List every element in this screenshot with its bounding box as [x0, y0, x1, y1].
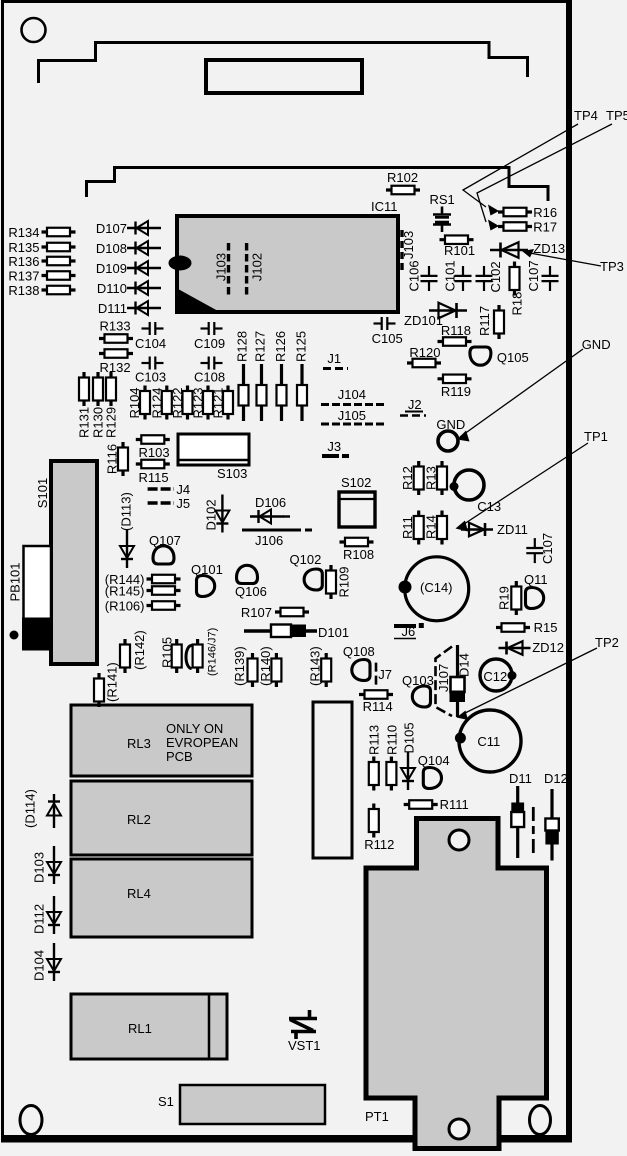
svg-text:R125: R125 [294, 331, 309, 362]
svg-text:R135: R135 [8, 240, 39, 255]
svg-text:R136: R136 [8, 254, 39, 269]
svg-text:R12: R12 [400, 466, 415, 490]
svg-text:C12: C12 [483, 669, 507, 684]
svg-text:R123: R123 [191, 387, 206, 418]
svg-text:RS1: RS1 [430, 192, 455, 207]
svg-text:R14: R14 [424, 515, 439, 539]
svg-text:R102: R102 [387, 170, 418, 185]
svg-text:C102: C102 [488, 261, 503, 292]
svg-text:R105: R105 [160, 637, 175, 668]
svg-text:J5: J5 [176, 496, 190, 511]
svg-text:R19: R19 [497, 586, 512, 610]
svg-text:D111: D111 [98, 301, 127, 316]
svg-text:D109: D109 [96, 261, 127, 276]
svg-text:J107: J107 [436, 664, 451, 692]
svg-text:(R140): (R140) [258, 646, 273, 686]
svg-text:RL3: RL3 [127, 736, 151, 751]
svg-text:D104: D104 [32, 950, 47, 981]
svg-text:D110: D110 [97, 281, 127, 296]
svg-text:J102: J102 [250, 253, 265, 281]
svg-text:J1: J1 [327, 351, 341, 366]
svg-text:(R145): (R145) [105, 584, 145, 599]
svg-text:PT1: PT1 [365, 1109, 389, 1124]
svg-text:R121: R121 [211, 387, 226, 418]
svg-text:Q104: Q104 [418, 753, 450, 768]
svg-text:R132: R132 [100, 360, 131, 375]
svg-text:R104: R104 [127, 387, 142, 418]
svg-text:R108: R108 [343, 547, 374, 562]
svg-text:R122: R122 [170, 387, 185, 418]
svg-text:R110: R110 [385, 725, 400, 755]
svg-text:R120: R120 [409, 345, 440, 360]
svg-text:C107: C107 [540, 533, 555, 564]
svg-text:D107: D107 [96, 221, 127, 236]
svg-text:R119: R119 [441, 384, 471, 399]
svg-text:R111: R111 [440, 797, 469, 812]
svg-text:C109: C109 [194, 336, 225, 351]
svg-text:J2: J2 [408, 397, 422, 412]
svg-text:D103: D103 [32, 852, 47, 883]
svg-text:ZD11: ZD11 [497, 522, 528, 537]
svg-text:R11: R11 [400, 516, 415, 539]
svg-text:S1: S1 [158, 1094, 174, 1109]
svg-text:R138: R138 [8, 283, 39, 298]
svg-text:VST1: VST1 [288, 1038, 321, 1053]
svg-text:(R141): (R141) [105, 662, 120, 702]
svg-text:J105: J105 [338, 408, 366, 423]
svg-text:(R143): (R143) [308, 646, 323, 686]
svg-text:EVROPEAN: EVROPEAN [166, 735, 238, 750]
svg-text:R115: R115 [139, 470, 169, 485]
svg-text:R124: R124 [150, 387, 165, 418]
svg-text:J4: J4 [176, 482, 190, 497]
svg-text:R127: R127 [253, 331, 268, 362]
svg-text:D106: D106 [255, 495, 286, 510]
svg-text:R117: R117 [477, 306, 492, 336]
svg-text:S102: S102 [341, 475, 371, 490]
svg-text:D105: D105 [402, 722, 417, 753]
svg-text:D102: D102 [204, 499, 219, 530]
svg-text:R128: R128 [235, 331, 250, 362]
svg-text:RL2: RL2 [127, 812, 151, 827]
svg-text:ZD101: ZD101 [404, 313, 443, 328]
svg-text:S101: S101 [35, 478, 50, 508]
svg-text:D108: D108 [96, 241, 127, 256]
svg-text:RL4: RL4 [127, 886, 151, 901]
svg-text:D101: D101 [318, 625, 349, 640]
svg-text:(R139): (R139) [232, 646, 247, 686]
svg-text:(C14): (C14) [420, 580, 453, 595]
svg-text:Q102: Q102 [290, 552, 322, 567]
svg-text:J6: J6 [402, 624, 416, 639]
svg-text:R113: R113 [367, 725, 382, 755]
svg-text:(D114): (D114) [23, 789, 38, 828]
svg-text:R109: R109 [336, 566, 351, 597]
svg-text:R112: R112 [364, 837, 394, 852]
svg-text:(R142): (R142) [132, 630, 147, 670]
svg-text:ZD12: ZD12 [532, 640, 564, 655]
svg-text:TP3: TP3 [600, 259, 624, 274]
svg-text:D12: D12 [544, 771, 568, 786]
svg-text:R15: R15 [534, 620, 558, 635]
svg-text:Q107: Q107 [149, 533, 181, 548]
svg-text:(R146/J7): (R146/J7) [207, 628, 219, 676]
svg-text:R107: R107 [241, 605, 272, 620]
svg-text:TP2: TP2 [595, 635, 619, 650]
svg-text:S103: S103 [217, 466, 247, 481]
svg-text:J104: J104 [338, 387, 366, 402]
svg-text:C104: C104 [135, 336, 166, 351]
svg-text:RL1: RL1 [128, 1021, 152, 1036]
svg-text:J106: J106 [255, 533, 283, 548]
svg-text:TP5: TP5 [606, 108, 627, 123]
svg-text:TP4: TP4 [574, 108, 598, 123]
svg-text:Q105: Q105 [497, 350, 529, 365]
svg-text:R16: R16 [533, 205, 557, 220]
svg-text:TP1: TP1 [584, 429, 608, 444]
svg-text:R118: R118 [441, 323, 471, 338]
svg-text:Q11: Q11 [524, 572, 548, 587]
svg-text:R114: R114 [363, 699, 393, 714]
svg-text:R101: R101 [444, 243, 475, 258]
svg-text:Q108: Q108 [343, 644, 375, 659]
svg-text:C106: C106 [406, 260, 421, 291]
svg-text:R137: R137 [8, 269, 39, 284]
svg-text:R18: R18 [510, 292, 525, 316]
svg-text:D14: D14 [457, 653, 472, 677]
svg-text:ZD13: ZD13 [533, 241, 565, 256]
svg-text:D112: D112 [32, 904, 47, 934]
svg-text:R131: R131 [77, 407, 92, 438]
svg-text:Q103: Q103 [402, 673, 434, 688]
svg-text:ONLY ON: ONLY ON [166, 721, 223, 736]
svg-text:R103: R103 [139, 445, 170, 460]
svg-text:C11: C11 [477, 734, 500, 749]
svg-text:GND: GND [582, 337, 611, 352]
svg-text:R126: R126 [273, 331, 288, 362]
svg-text:C108: C108 [194, 370, 225, 385]
svg-text:(D113): (D113) [119, 492, 134, 531]
svg-text:Q101: Q101 [191, 562, 223, 577]
svg-text:C105: C105 [372, 331, 403, 346]
svg-text:R116: R116 [105, 444, 120, 474]
svg-text:PB101: PB101 [8, 562, 23, 601]
svg-text:Q106: Q106 [235, 584, 267, 599]
svg-text:C103: C103 [135, 370, 166, 385]
svg-text:C107: C107 [526, 260, 541, 291]
svg-text:R17: R17 [533, 220, 557, 235]
svg-text:J3: J3 [327, 439, 341, 454]
svg-text:R134: R134 [8, 225, 39, 240]
svg-text:J103: J103 [214, 253, 229, 281]
svg-text:R13: R13 [424, 466, 439, 490]
svg-text:R133: R133 [100, 319, 131, 334]
svg-text:D11: D11 [509, 771, 532, 786]
svg-text:R129: R129 [104, 407, 119, 438]
svg-text:PCB: PCB [166, 749, 193, 764]
svg-text:C13: C13 [477, 499, 501, 514]
svg-text:IC11: IC11 [371, 199, 398, 214]
svg-text:J7: J7 [378, 667, 392, 682]
svg-text:J103: J103 [401, 231, 416, 259]
svg-text:(R106): (R106) [105, 599, 145, 614]
